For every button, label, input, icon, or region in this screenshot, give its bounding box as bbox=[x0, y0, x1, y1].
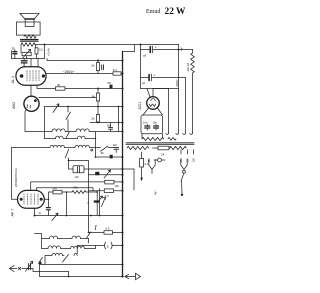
resistor 2k vertical bbox=[96, 63, 99, 71]
svg-text:0,5: 0,5 bbox=[106, 226, 110, 230]
tube AB2 envelope bbox=[24, 96, 39, 111]
wire tap leads bbox=[181, 150, 194, 154]
resistor rung 232 bbox=[104, 231, 113, 235]
wire resistor bottom bbox=[36, 54, 38, 59]
wire screen pin bbox=[37, 59, 39, 67]
wire switch branch bbox=[67, 107, 69, 113]
jack S symbol bbox=[105, 242, 113, 249]
switch mains knob bbox=[183, 170, 186, 173]
power transformer primary left bbox=[127, 146, 149, 149]
node rail-pot junction bbox=[26, 58, 28, 60]
svg-text:+: + bbox=[155, 45, 157, 49]
oscillator coil row3 bbox=[45, 253, 64, 264]
wire plate line 250V bbox=[46, 73, 113, 75]
wire cap to tube bbox=[23, 59, 25, 67]
title Emud 22 W bbox=[146, 7, 186, 17]
wire ecap1 line bbox=[141, 49, 193, 51]
output transformer enclosure bbox=[16, 22, 40, 35]
mains plug left prongs bbox=[149, 160, 155, 174]
wire AB2 to diode load bbox=[25, 109, 26, 131]
trimmer capacitor bbox=[29, 264, 31, 270]
IF transformer row1 bbox=[25, 129, 123, 132]
resistor zigzag horizontal bbox=[72, 191, 86, 194]
wire AVC rung R3 bbox=[89, 174, 123, 176]
switch IF bbox=[66, 112, 71, 120]
wire AZ11 plate to box bbox=[152, 89, 154, 97]
wire dropper to network bbox=[44, 45, 46, 59]
svg-text:10k: 10k bbox=[115, 184, 120, 188]
wire box over to HV bbox=[153, 89, 169, 133]
switch oscillator bbox=[63, 255, 69, 263]
wire mid pin bbox=[30, 59, 32, 67]
wire pinA to R4 bbox=[31, 182, 123, 191]
wire zigzag right bbox=[86, 191, 97, 193]
svg-text:4V~: 4V~ bbox=[154, 190, 158, 195]
node corner x68 bbox=[68, 276, 70, 278]
wire top network bottom rail bbox=[12, 58, 45, 60]
wire secondary right lead bbox=[35, 45, 37, 48]
wire L-connector right of bus bbox=[123, 169, 135, 190]
node bus bottom bbox=[121, 275, 123, 277]
resistor 2M bbox=[53, 190, 62, 194]
oscillator coil row1 bbox=[35, 234, 89, 249]
wire curl lead bbox=[76, 246, 78, 254]
svg-text:2k: 2k bbox=[91, 64, 95, 68]
wire corner x68 bbox=[68, 272, 70, 277]
capacitor 10n left bbox=[145, 124, 150, 130]
tube AZ11 cathode arc bbox=[151, 99, 155, 101]
pickup arrow bbox=[10, 265, 18, 271]
capacitor 10n row3 bbox=[114, 147, 119, 149]
output transformer primary winding bbox=[24, 35, 36, 38]
svg-text:125: 125 bbox=[192, 158, 196, 163]
wire left column bbox=[12, 50, 15, 59]
wire 2k lower leads bbox=[97, 107, 99, 123]
switch IF row2 bbox=[66, 132, 70, 139]
wire 2k leads bbox=[97, 61, 99, 74]
node y122 junctions bbox=[97, 122, 99, 124]
svg-text:l: l bbox=[95, 223, 97, 232]
output transformer core bbox=[21, 39, 39, 41]
wire AF7 plate lead bbox=[44, 198, 48, 200]
node L1 junction bbox=[97, 88, 99, 90]
transformer hook ends bbox=[166, 133, 193, 135]
svg-text:s: s bbox=[107, 244, 109, 248]
node ecap line right bbox=[178, 49, 180, 51]
capacitor 4u lower electrolytic bbox=[148, 75, 150, 81]
resistor R5 bbox=[104, 189, 113, 193]
wire AZ11 filament leads bbox=[143, 108, 163, 115]
potentiometer volume bbox=[22, 49, 31, 58]
voltage selector box bbox=[158, 146, 169, 150]
svg-text:50k: 50k bbox=[74, 186, 79, 190]
svg-text:Emud: Emud bbox=[146, 9, 160, 15]
wire cap row3 stub bbox=[115, 149, 117, 152]
wire plate node up bbox=[49, 192, 54, 199]
node rail rung1 bbox=[95, 156, 97, 158]
tube AZ11 filament marks bbox=[149, 104, 156, 106]
svg-text:~250V~: ~250V~ bbox=[63, 70, 76, 74]
capacitor grid-leak block bbox=[94, 200, 100, 202]
wire bus top connector bbox=[123, 45, 135, 52]
resistor R4 bbox=[105, 180, 114, 184]
tube AF7 cathode dot bbox=[20, 198, 23, 201]
wire feed diagonal to AZ11 bbox=[147, 89, 150, 98]
wire sec tap vertical bbox=[185, 78, 187, 133]
svg-text:AF 7: AF 7 bbox=[11, 208, 15, 216]
wire cap leads bbox=[47, 199, 49, 215]
svg-text:2x0,3A: 2x0,3A bbox=[186, 63, 190, 72]
svg-text:10n: 10n bbox=[75, 175, 80, 179]
tube AF7 anode dot bbox=[40, 198, 43, 201]
wire corner down bbox=[66, 192, 68, 216]
resistor 0,2 vertical bbox=[35, 48, 38, 54]
wire rung1 bbox=[96, 156, 123, 158]
svg-text:AB2: AB2 bbox=[12, 102, 16, 109]
tube AL4 envelope bbox=[16, 67, 46, 85]
fuse bulb bbox=[158, 158, 162, 162]
wire rung R5 bbox=[89, 190, 123, 192]
wire rung 232 bbox=[89, 232, 123, 234]
oscillator coil row2 bbox=[42, 246, 96, 249]
svg-text:10n: 10n bbox=[152, 120, 157, 124]
svg-text:+0,4A: +0,4A bbox=[47, 48, 51, 56]
svg-text:+: + bbox=[153, 73, 155, 77]
wire boxed-cap branch bbox=[69, 161, 123, 170]
node plate bbox=[48, 199, 50, 201]
capacitor box 10n pair bbox=[141, 115, 163, 134]
tube AL4 cathode dot bbox=[20, 74, 24, 78]
boxed cap plates bbox=[77, 166, 79, 172]
arrow into osc bbox=[39, 258, 43, 263]
tube AL4 grids bbox=[27, 70, 39, 81]
svg-text:10n: 10n bbox=[113, 143, 118, 147]
resistor 3k horizontal bbox=[56, 87, 66, 90]
arrow AVC bottom bbox=[52, 213, 58, 220]
svg-text:AZ11: AZ11 bbox=[138, 102, 142, 110]
wire selector leads bbox=[153, 147, 170, 149]
wire AF7 left rail connection bbox=[12, 198, 18, 200]
svg-text:4V~: 4V~ bbox=[180, 46, 184, 51]
node rail to PSU dropper bbox=[140, 44, 142, 46]
wire mid rail x95 bbox=[95, 132, 97, 158]
svg-text:2M: 2M bbox=[52, 186, 57, 190]
capacitor grid coupling bbox=[21, 61, 27, 63]
resistor R vertical mid bbox=[96, 93, 99, 101]
wire line y122 bbox=[90, 122, 123, 124]
output transformer secondary winding bbox=[21, 43, 36, 46]
svg-text:10n: 10n bbox=[143, 120, 148, 124]
wire AB2 anode line L2 bbox=[39, 97, 97, 99]
svg-text:0,1: 0,1 bbox=[145, 162, 149, 166]
pickup cross bbox=[18, 267, 20, 269]
resistor detector load vertical bbox=[140, 159, 144, 168]
arrow grid-leak bbox=[102, 197, 106, 207]
switch mains bbox=[181, 174, 184, 194]
wire HV leads bbox=[142, 134, 163, 139]
resistor 2k lower vertical bbox=[96, 115, 99, 123]
power transformer core bbox=[126, 142, 194, 144]
wire R leads bbox=[97, 89, 99, 107]
wire fuse stubs bbox=[154, 159, 165, 161]
wire HT rail A bbox=[36, 44, 179, 46]
wire switch to row1 bbox=[67, 120, 69, 132]
arrow AVC bbox=[53, 104, 59, 113]
svg-text:2k: 2k bbox=[91, 117, 95, 121]
wire grid-leak branch bbox=[96, 191, 98, 216]
svg-text:2000Ω(70mA): 2000Ω(70mA) bbox=[14, 168, 18, 187]
power transformer primary right bbox=[170, 146, 187, 149]
tube AF7 envelope bbox=[18, 190, 45, 208]
svg-text:0,2: 0,2 bbox=[39, 48, 44, 52]
capacitor rung1 block bbox=[110, 155, 113, 159]
tube AF7 grids bbox=[24, 194, 38, 205]
svg-text:0,1: 0,1 bbox=[113, 68, 118, 72]
wire PSU dropper bbox=[140, 45, 142, 89]
contact row3 bbox=[91, 149, 93, 151]
coil small curl bbox=[74, 254, 77, 256]
power transformer aux winding bbox=[168, 137, 176, 140]
node bus dots bbox=[121, 59, 123, 265]
arrow AVC rung bbox=[104, 170, 111, 178]
capacitor AVC block bbox=[95, 172, 99, 175]
wire pinB bbox=[37, 188, 94, 191]
arrow trimmer bbox=[97, 196, 103, 203]
wire pot to rail bbox=[26, 56, 28, 59]
wire 2M right bbox=[62, 191, 72, 193]
wire AL4 cathode to AB2 bbox=[30, 85, 32, 96]
svg-text:8k: 8k bbox=[92, 95, 96, 99]
tube AB2 cathode dot bbox=[34, 99, 37, 102]
capacitor 4u upper electrolytic bbox=[149, 47, 151, 53]
arrowhead detector lead bbox=[140, 178, 143, 182]
node ladder corner bbox=[68, 160, 70, 162]
node rung 232 bbox=[88, 232, 90, 234]
node rail dropper bbox=[44, 44, 46, 46]
wire pickup line bbox=[22, 269, 69, 272]
wire right vertical from rail bbox=[178, 45, 180, 133]
power transformer HV winding bbox=[142, 137, 164, 140]
wire bottom line y264 bbox=[40, 264, 123, 266]
wire ecap2 line bbox=[141, 77, 186, 79]
svg-text:50: 50 bbox=[108, 81, 112, 85]
switch to ladder bbox=[65, 149, 69, 160]
component boxed cap bbox=[73, 166, 84, 173]
main HT bus bbox=[122, 52, 124, 277]
svg-text:24: 24 bbox=[161, 153, 165, 157]
trimmer arrow bbox=[26, 261, 33, 271]
wire x118 vertical bbox=[118, 107, 120, 132]
wire screen feed line bbox=[141, 88, 179, 90]
switch row3 bbox=[101, 146, 114, 152]
wire left IF rail bbox=[44, 107, 46, 139]
left rail vertical bbox=[11, 148, 13, 200]
wire rung s-jack bbox=[77, 245, 122, 247]
loudspeaker LS bbox=[20, 14, 39, 27]
node mid rail bbox=[95, 138, 96, 139]
capacitor 50 block bbox=[110, 85, 113, 89]
capacitor 10n IF bbox=[109, 127, 113, 129]
capacitor C tone bbox=[13, 52, 17, 54]
wire AF7 cathode down bbox=[34, 208, 36, 215]
wire secondary left lead bbox=[20, 45, 22, 53]
wire AVC line L3 bbox=[45, 106, 123, 108]
svg-text:22 W: 22 W bbox=[165, 7, 187, 17]
mains plug right prongs bbox=[181, 160, 187, 170]
switch mains end blob bbox=[181, 194, 183, 196]
capacitor AF7 plate bbox=[46, 208, 50, 210]
node zigzag join bbox=[96, 191, 98, 193]
node corner plate row bbox=[66, 191, 68, 193]
node AVC junctions bbox=[66, 215, 68, 217]
wire ladder feed bbox=[69, 161, 89, 233]
wire trimmer branch bbox=[99, 189, 101, 216]
wire AVC bottom line bbox=[35, 215, 123, 217]
tube AB2 diode plates bbox=[27, 105, 30, 109]
capacitor beside 2k bbox=[102, 65, 104, 70]
wire bottom line y276 bbox=[40, 265, 123, 277]
output jack arrow bbox=[125, 273, 141, 279]
IF transformer row3 bbox=[12, 145, 101, 147]
node L3 junctions bbox=[67, 106, 69, 108]
node AVC line left bbox=[34, 215, 36, 217]
svg-text:AL 4: AL 4 bbox=[11, 76, 15, 84]
tube AL4 anode dot bbox=[42, 74, 45, 77]
switch bottom bbox=[86, 232, 91, 239]
node screen line junction bbox=[97, 60, 99, 62]
wire cap IF leads bbox=[110, 123, 112, 132]
resistor 0,1 on 250V line bbox=[113, 72, 121, 75]
tube AZ11 rectifier bbox=[147, 97, 160, 110]
IF transformer row2 bbox=[45, 136, 96, 138]
wire cathode network line L1 bbox=[37, 85, 123, 88]
wire 250V to bus bbox=[121, 73, 123, 75]
wire heater leads bbox=[192, 50, 194, 133]
capacitor 10n right bbox=[154, 124, 159, 130]
wire screen line bbox=[47, 59, 123, 61]
resistor heater dropper zigzag bbox=[191, 53, 195, 73]
wire detector load leads bbox=[141, 152, 143, 178]
